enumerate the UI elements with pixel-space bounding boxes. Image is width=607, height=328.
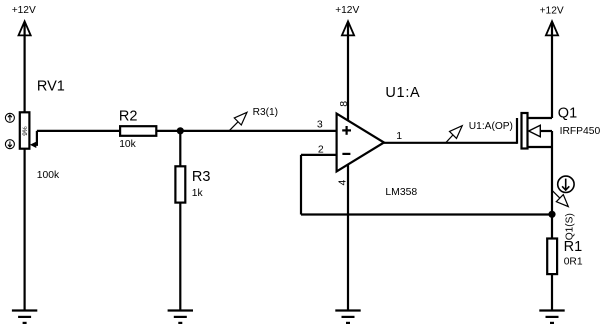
svg-text:Q1: Q1	[558, 106, 577, 122]
resistor R3	[175, 166, 185, 202]
resistor R1	[547, 239, 557, 275]
wire (feedback: to Q1 source node)	[301, 213, 552, 215]
RV1 adjust up indicator	[5, 113, 14, 122]
svg-text:R3: R3	[192, 169, 211, 185]
ground (RV1)	[12, 311, 37, 323]
svg-text:0R1: 0R1	[564, 256, 583, 267]
svg-text:+12V: +12V	[540, 5, 564, 16]
svg-text:R1: R1	[564, 239, 583, 255]
svg-text:1k: 1k	[192, 188, 204, 199]
svg-text:10k: 10k	[119, 139, 136, 150]
power +12V (op-amp rail)	[335, 5, 359, 35]
wire (pin 4 to ground)	[347, 164, 349, 310]
wire (drain rail)	[551, 22, 553, 118]
current probe	[558, 176, 574, 192]
wire (op-amp output to gate)	[384, 142, 517, 144]
svg-text:R3(1): R3(1)	[253, 107, 278, 118]
svg-text:+12V: +12V	[12, 5, 36, 16]
wire (R3 to ground)	[179, 203, 181, 311]
svg-text:8: 8	[338, 101, 350, 107]
svg-text:1: 1	[396, 130, 402, 142]
ground (op-amp)	[335, 311, 360, 323]
wire (pin 8 supply)	[347, 22, 349, 121]
junction node (source / feedback)	[548, 211, 555, 218]
svg-text:LM358: LM358	[385, 187, 417, 198]
wire label R3(1)	[229, 107, 278, 131]
svg-text:3: 3	[317, 118, 323, 130]
wire (junction to R3)	[179, 131, 181, 166]
power +12V (Q1 rail)	[540, 5, 564, 35]
svg-text:IRFP450: IRFP450	[560, 126, 601, 137]
wire (R2 to op-amp pin 3)	[156, 130, 336, 132]
svg-text:9%: 9%	[22, 126, 29, 136]
wire (R1 to ground)	[551, 274, 553, 310]
wire (wiper to R2)	[37, 130, 120, 132]
wire label U1:A(OP)	[446, 121, 513, 143]
resistor R2	[120, 126, 156, 136]
svg-text:Q1(S): Q1(S)	[564, 213, 575, 240]
RV1 adjust down indicator	[5, 140, 14, 149]
wire (feedback: down)	[300, 155, 302, 215]
potentiometer RV1	[20, 112, 30, 148]
ground (R1)	[539, 311, 564, 323]
op-amp U1:A	[337, 114, 384, 172]
transistor Q1	[517, 113, 552, 149]
wire (feedback: pin 2 left)	[301, 154, 337, 156]
junction node	[177, 127, 184, 134]
wire	[24, 149, 26, 311]
ground (R3)	[168, 311, 193, 323]
svg-text:R2: R2	[119, 109, 138, 125]
svg-text:+12V: +12V	[335, 5, 359, 16]
svg-text:U1:A: U1:A	[385, 85, 420, 101]
wire label Q1(S)	[552, 190, 575, 240]
power +12V (RV1 rail)	[12, 5, 36, 35]
wire	[24, 22, 26, 113]
wire (source down to R1)	[551, 131, 553, 239]
RV1 wiper	[30, 131, 37, 148]
svg-text:100k: 100k	[37, 170, 60, 181]
svg-text:4: 4	[337, 180, 349, 186]
svg-text:RV1: RV1	[37, 79, 65, 95]
svg-text:U1:A(OP): U1:A(OP)	[469, 121, 513, 132]
